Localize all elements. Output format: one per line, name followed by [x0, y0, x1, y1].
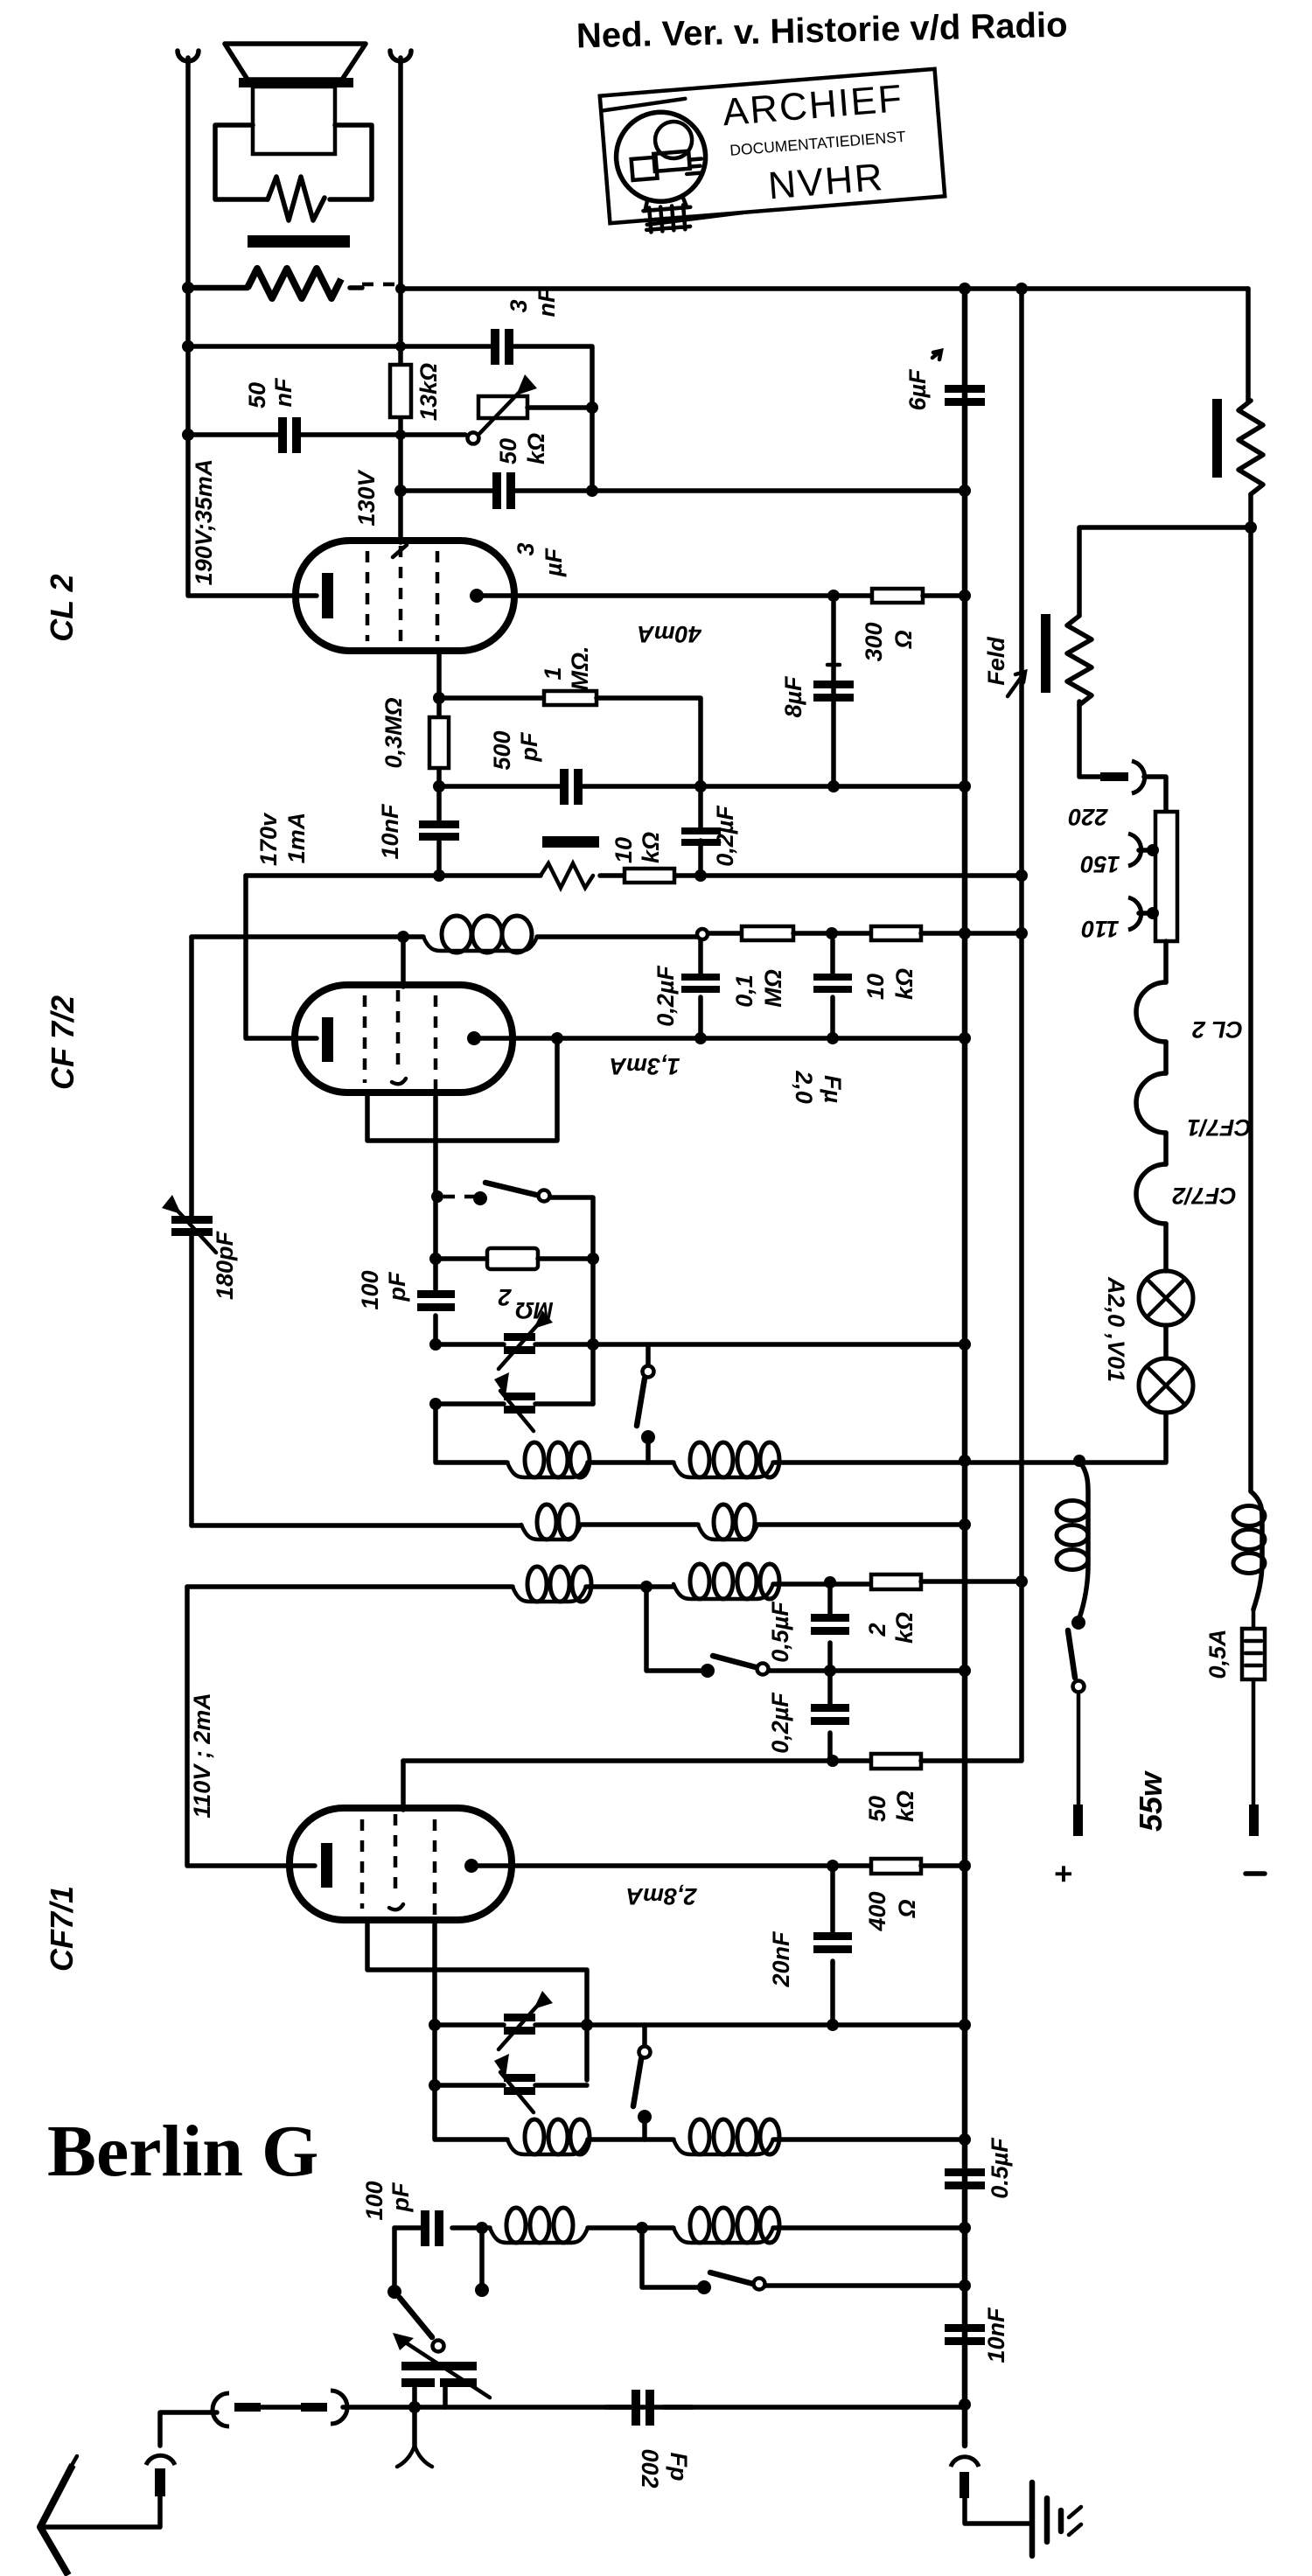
coil row1071 — [423, 937, 537, 951]
capacitor x=952 row1067-1187 — [830, 940, 835, 1038]
ground symbol — [1029, 2482, 1036, 2556]
CF7/1 cathode — [321, 1843, 332, 1888]
tube CF7/1 — [290, 1808, 512, 1920]
svg-text:Berlin G: Berlin G — [47, 2111, 318, 2192]
svg-text:110: 110 — [1081, 916, 1119, 942]
field coil Feld (zigzag+bar) — [1067, 616, 1092, 705]
dial lamp 2 — [1139, 1358, 1193, 1413]
capacitor 3uF — [492, 472, 501, 509]
svg-text:50: 50 — [864, 1796, 890, 1822]
svg-text:3: 3 — [506, 299, 532, 312]
switch S4 mains — [1071, 1616, 1085, 1630]
svg-text:170v: 170v — [255, 812, 282, 866]
svg-text:MΩ: MΩ — [760, 969, 786, 1008]
capacitor 0.2uF CF7/1 — [827, 1671, 833, 1761]
capacitor 500pF — [560, 769, 569, 805]
resistor 13k — [390, 365, 411, 417]
CF7/2 screen return wire — [367, 1038, 557, 1141]
CL2 cathode — [322, 573, 333, 618]
wire row y=497 — [188, 432, 278, 437]
heater chain — [1163, 941, 1169, 982]
tuning gang capacitor — [401, 2362, 477, 2370]
coil row y=2446 — [435, 2085, 507, 2140]
svg-text:kΩ: kΩ — [638, 832, 664, 863]
svg-text:µF: µF — [541, 547, 567, 577]
wire right rail grid CL2 — [398, 58, 403, 542]
wire branch to field coil — [1079, 527, 1251, 616]
svg-text:180pF: 180pF — [212, 1230, 238, 1300]
svg-text:3: 3 — [513, 542, 539, 555]
capacitor 100pF (CF7/2 osc) — [433, 1259, 438, 1344]
resistor 2M — [436, 1256, 487, 1261]
svg-text:1mA: 1mA — [283, 813, 310, 864]
hook top left — [178, 51, 199, 61]
capacitor 100pF antenna — [394, 2225, 482, 2230]
antenna plug pin — [155, 2468, 165, 2496]
resistor 0.1M — [708, 931, 742, 936]
wire row y=899 — [439, 784, 560, 789]
svg-text:2,0: 2,0 — [791, 1070, 817, 1104]
variable capacitor 180pF on left rail — [189, 937, 194, 1525]
svg-text:40mA: 40mA — [637, 621, 702, 647]
capacitor 3nF — [491, 329, 499, 365]
CL2 anode — [470, 589, 484, 603]
tap 110 — [1128, 897, 1141, 930]
plug pin - — [1249, 1805, 1259, 1836]
svg-text:8µF: 8µF — [780, 675, 806, 718]
svg-text:1,3mA: 1,3mA — [609, 1053, 680, 1079]
svg-text:55w: 55w — [1133, 1770, 1169, 1832]
wire row y=1814 — [187, 1584, 513, 1589]
resistor 1M — [439, 695, 544, 701]
antenna symbol — [40, 2465, 73, 2575]
speaker magnet box — [253, 87, 335, 154]
potentiometer 50k — [478, 396, 527, 418]
svg-text:Fp: Fp — [666, 2453, 692, 2482]
CF7/1 grid1 top lead — [401, 1761, 406, 1810]
fuse 0.5A — [1252, 1609, 1256, 1629]
wire 3nF to corner — [513, 346, 592, 491]
output transformer box — [215, 125, 372, 199]
variable capacitor row y=1605 — [436, 1401, 593, 1407]
svg-text:pF: pF — [384, 1271, 410, 1302]
wire 100pF left corner to switch — [392, 2228, 397, 2290]
switch S3 — [646, 1344, 651, 1366]
CF7/1 screen return — [367, 1920, 587, 2080]
svg-text:20nF: 20nF — [768, 1930, 794, 1988]
CF7/1 anode — [464, 1859, 478, 1873]
svg-text:13kΩ: 13kΩ — [415, 363, 442, 421]
transformer primary zigzag — [268, 177, 325, 220]
capacitor 0.2uF x=801 row2 — [698, 939, 703, 1038]
svg-text:400: 400 — [864, 1891, 890, 1931]
svg-text:nF: nF — [534, 287, 560, 317]
wire 170V corner down to CF7/2 cathode — [246, 876, 317, 1038]
svg-text:130V: 130V — [353, 469, 380, 526]
capacitor 20nF — [830, 1866, 835, 2025]
variable capacitor row 2315 — [504, 2014, 535, 2021]
svg-text:0,5A: 0,5A — [1204, 1629, 1231, 1679]
hook top right — [390, 51, 411, 61]
resistor 300 ohm — [872, 589, 923, 603]
CL2 bottom lead — [436, 651, 442, 786]
CF7/1 g lead down — [432, 1920, 437, 2085]
svg-text:6µF: 6µF — [904, 368, 931, 411]
tap 150 — [1128, 834, 1141, 866]
svg-text:10nF: 10nF — [377, 803, 403, 860]
svg-text:1: 1 — [540, 667, 566, 680]
svg-text:0.5µF: 0.5µF — [987, 2137, 1013, 2199]
svg-text:220: 220 — [1068, 804, 1108, 830]
svg-text:2,8mA: 2,8mA — [625, 1883, 697, 1909]
capacitor 50nF — [278, 417, 287, 453]
bus bottom connector — [951, 2457, 979, 2467]
wire row y=396 — [188, 344, 491, 349]
switch S8 — [400, 2298, 432, 2337]
resistor 2k — [871, 1574, 921, 1589]
wire row y=2315 — [435, 2022, 965, 2028]
wire pot to corner — [527, 405, 592, 410]
svg-text:A2,0 ,V01: A2,0 ,V01 — [1103, 1276, 1129, 1382]
svg-text:50: 50 — [495, 438, 521, 464]
coil row y=2547 — [476, 2222, 488, 2234]
node top bus — [959, 283, 971, 295]
svg-text:2: 2 — [864, 1623, 890, 1637]
resistor 50k — [871, 1754, 921, 1769]
CL2 grids dashed — [366, 551, 370, 641]
plug pin + — [1073, 1805, 1083, 1836]
NVHR archive stamp — [600, 69, 946, 235]
capacitor 0.5uF — [827, 1582, 833, 1671]
capacitor 8uF — [831, 603, 836, 786]
svg-text:CF 7/2: CF 7/2 — [45, 995, 80, 1090]
speaker bar — [239, 78, 353, 87]
transformer core bar — [248, 235, 350, 248]
wire row y=2013 — [403, 1758, 871, 1763]
svg-text:150: 150 — [1080, 851, 1120, 877]
grid lead CF7/2 — [401, 937, 406, 987]
top bus wire y=330 — [401, 286, 1248, 291]
capacitor 10nF — [436, 786, 442, 876]
svg-text:0,2µF: 0,2µF — [767, 1692, 793, 1754]
svg-text:kΩ: kΩ — [892, 1791, 918, 1822]
wire left rail from hook to CL2 cathode — [188, 58, 317, 596]
mains branch coil — [1079, 1461, 1088, 1618]
svg-text:10: 10 — [862, 974, 889, 1000]
svg-text:100: 100 — [357, 1270, 383, 1309]
svg-text:CF7/1: CF7/1 — [1187, 1114, 1252, 1141]
switch S6 — [642, 2025, 647, 2047]
svg-text:2: 2 — [498, 1284, 512, 1310]
svg-text:Ω: Ω — [890, 630, 917, 649]
svg-text:002: 002 — [637, 2448, 663, 2488]
svg-text:pF: pF — [516, 731, 542, 762]
CF7/2 cathode — [322, 1017, 333, 1062]
main bus rail x=1103 — [962, 289, 968, 2446]
resistor 400ohm — [871, 1859, 921, 1874]
resistor 10k row1001 — [625, 869, 674, 883]
switch S2 — [443, 1195, 475, 1199]
svg-text:0,5µF: 0,5µF — [767, 1601, 793, 1663]
wire 3uF to bus — [515, 488, 965, 493]
resistor 0.3M — [429, 717, 449, 768]
svg-text:CL 2: CL 2 — [44, 574, 80, 641]
rail x=1168 — [1019, 289, 1024, 1581]
heater tap wire 220 — [1079, 702, 1100, 777]
switch S5 row y=1910 — [646, 1587, 701, 1671]
resistor hum (zigzag+bar) top right — [1239, 401, 1263, 494]
svg-text:50: 50 — [244, 382, 270, 408]
svg-text:Ω: Ω — [894, 1899, 920, 1918]
svg-text:nF: nF — [270, 377, 297, 407]
svg-text:0,3MΩ: 0,3MΩ — [380, 697, 407, 768]
far right rail top — [1246, 289, 1251, 401]
label 200pF — [605, 2405, 693, 2410]
svg-text:500: 500 — [489, 730, 515, 770]
svg-text:0,1: 0,1 — [731, 974, 757, 1008]
svg-text:kΩ: kΩ — [891, 968, 918, 1000]
coil row y=1672 right — [673, 1463, 773, 1477]
lamp to row 1672 — [1163, 1413, 1169, 1463]
svg-text:110V ; 2mA: 110V ; 2mA — [189, 1693, 215, 1819]
voltage selector — [1155, 812, 1177, 941]
svg-text:10nF: 10nF — [983, 2307, 1009, 2363]
wire speaker left lead — [188, 285, 248, 291]
svg-text:0,2µF: 0,2µF — [712, 805, 738, 867]
wire row y=1743 — [192, 1523, 521, 1528]
right rail coil — [1251, 1491, 1262, 1609]
svg-text:CL 2: CL 2 — [1192, 1016, 1243, 1043]
speaker secondary zigzag (thick) — [248, 269, 341, 298]
tube CL2 — [296, 541, 514, 651]
svg-text:MΩ.: MΩ. — [567, 646, 593, 690]
svg-text:pF: pF — [387, 2182, 414, 2212]
stub dead-end — [479, 2228, 485, 2286]
svg-text:10: 10 — [611, 837, 637, 863]
dial lamp 1 — [1139, 1271, 1193, 1325]
switch S7 row y=2615 — [642, 2228, 704, 2287]
svg-text:CF7/2: CF7/2 — [1172, 1183, 1237, 1209]
svg-text:190V;35mA: 190V;35mA — [191, 459, 217, 586]
CF7/2 g3 lead down — [433, 1093, 438, 1259]
capacitor 0.2uF x=801 — [698, 786, 703, 876]
svg-text:100: 100 — [361, 2181, 387, 2220]
capacitor 0.5uF bus — [962, 2140, 967, 2228]
connector pair — [213, 2393, 229, 2426]
wire row y=561 — [401, 488, 492, 493]
capacitor 10nF bus — [962, 2286, 967, 2404]
potentiometer zigzag on 170V row — [541, 863, 593, 888]
coil row y=1672 left — [436, 1404, 507, 1463]
capacitor 6uF on bus — [945, 385, 985, 393]
svg-text:+: + — [1045, 1865, 1081, 1883]
resistor 10k row1067 — [871, 926, 921, 940]
wire 50nF to wiper — [301, 432, 465, 437]
left rail CF7/1 — [187, 1587, 315, 1866]
svg-text:kΩ: kΩ — [891, 1612, 918, 1644]
wire speaker right lead — [350, 285, 362, 290]
variable capacitor row y=1537 — [436, 1342, 965, 1347]
CF7/1 grids dashed — [360, 1819, 365, 1909]
variable capacitor row 2384 — [435, 2083, 587, 2088]
svg-text:Fµ: Fµ — [820, 1075, 846, 1103]
tube CF7/2 — [295, 985, 513, 1093]
svg-text:Feld: Feld — [983, 637, 1009, 686]
speaker cone — [225, 44, 366, 80]
svg-text:0,2µF: 0,2µF — [653, 965, 679, 1027]
CF7/2 grids dashed — [363, 995, 367, 1083]
svg-text:300: 300 — [861, 622, 887, 661]
svg-text:CF7/1: CF7/1 — [44, 1886, 80, 1972]
antenna wire — [40, 2496, 160, 2527]
wire row y=1071 — [192, 934, 423, 939]
wire 170V row y=1001 — [246, 873, 1022, 878]
far right rail down — [1248, 527, 1253, 1491]
CF7/2 anode — [467, 1031, 481, 1045]
svg-text:kΩ: kΩ — [523, 433, 549, 464]
